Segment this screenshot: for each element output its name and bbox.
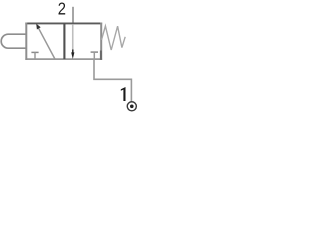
port label 1 [121, 87, 126, 101]
exhaust arrow shaft dark [72, 50, 74, 54]
connection center dot [130, 105, 134, 109]
exhaust arrowhead down [71, 52, 74, 59]
push button actuator [1, 34, 26, 48]
flow path 1 to 2 (left chamber diagonal) [38, 27, 55, 59]
blocked port T (left chamber) [31, 51, 38, 53]
return spring [102, 26, 126, 50]
blocked port T (right chamber) [91, 51, 98, 53]
arrowhead of flow path [36, 24, 41, 30]
valve position divider [63, 23, 65, 59]
exhaust path 2 to 3 (right chamber, light) [72, 24, 74, 50]
valve body right edge [100, 23, 102, 61]
valve body bottom edge [25, 58, 102, 60]
wire port 1 path [94, 59, 131, 102]
valve body left edge [25, 23, 27, 61]
svg-text:2: 2 [58, 0, 66, 19]
wire port 2 stub [72, 7, 74, 24]
valve body right edge lower dark part [100, 51, 102, 60]
open connection circle port 1 [127, 102, 136, 111]
valve body top edge [25, 22, 102, 24]
